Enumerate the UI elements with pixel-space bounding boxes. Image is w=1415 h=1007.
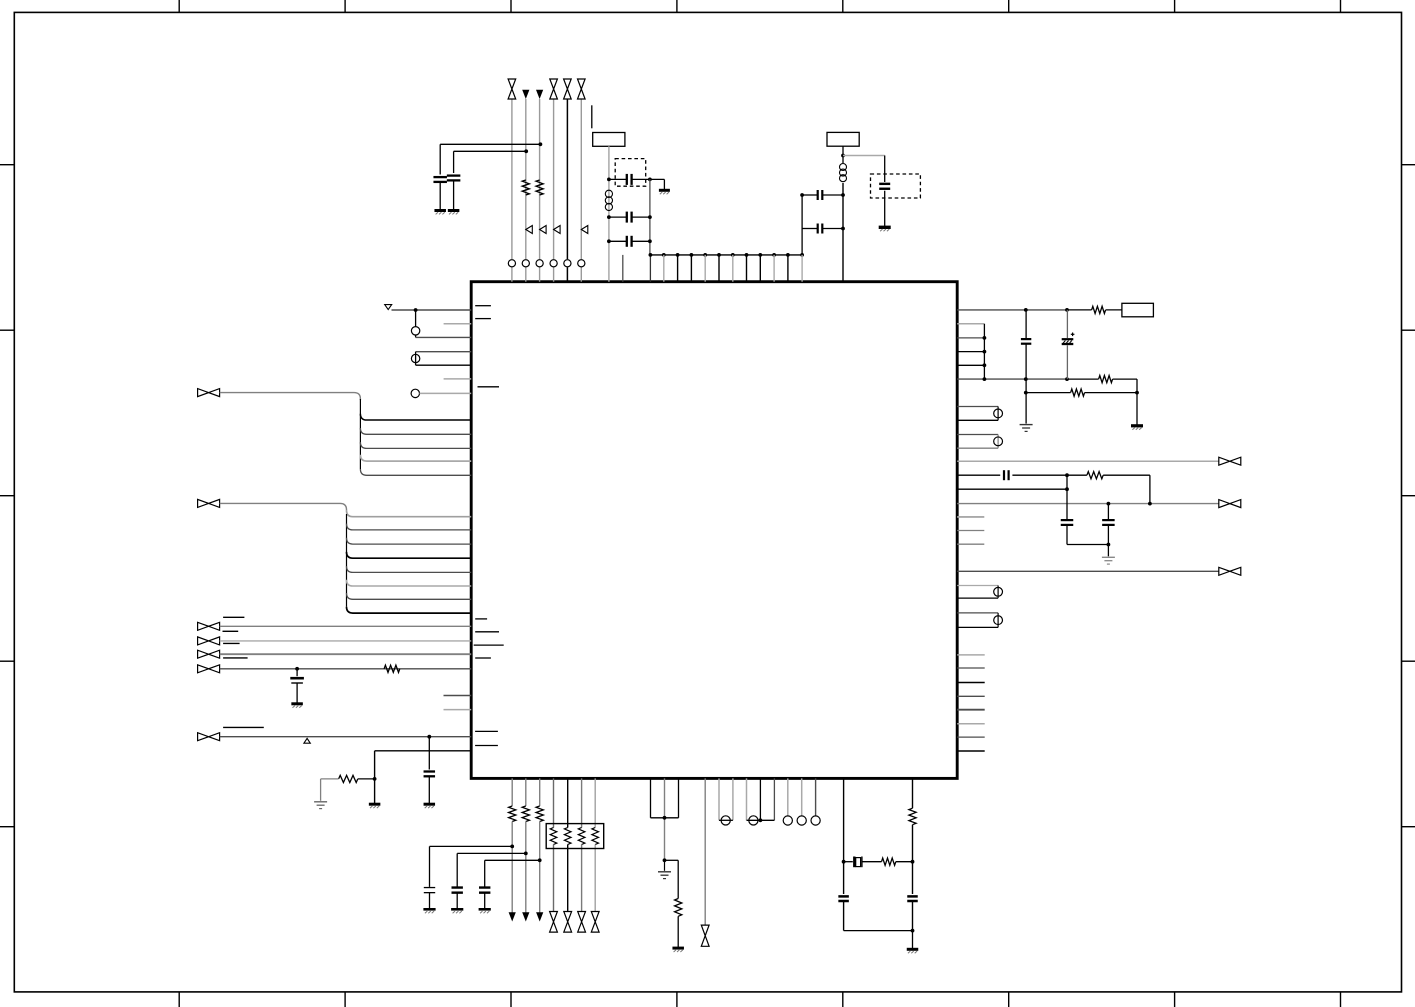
wire J4 <box>220 640 472 642</box>
capacitor C13 <box>1004 470 1009 480</box>
wire rnet 2 lower <box>567 845 569 912</box>
pin stub R 4 <box>957 695 985 697</box>
connector J5 (bowtie) <box>198 650 220 658</box>
capacitor C3 (in Y1) <box>627 174 632 185</box>
node vssgrp a <box>663 816 667 820</box>
node bus 2 <box>676 253 680 257</box>
wire C9 stem <box>296 669 298 676</box>
power arrow A4 <box>522 912 529 921</box>
wire C11 upper <box>1025 310 1027 339</box>
wire C8 leads <box>802 228 843 230</box>
signal overbar S4 <box>223 657 248 659</box>
wire bot con <box>704 778 706 924</box>
node vdd a <box>1024 308 1028 312</box>
capacitor C6 (in Y2) <box>879 184 890 189</box>
inductor L2 <box>840 164 847 182</box>
pin stub L c <box>444 695 472 697</box>
pin stub R grp1c <box>957 351 984 353</box>
wire C15 upper <box>1107 504 1109 520</box>
wire top pin 4 <box>553 99 555 282</box>
wire reset lower <box>416 335 472 337</box>
node tap a <box>1024 391 1028 395</box>
wire top pin 2 <box>525 99 527 282</box>
wire bundle1 line 2 <box>360 428 471 434</box>
wire cap C1 top <box>440 144 540 174</box>
wire circle pin <box>420 392 472 394</box>
node rt <box>911 929 915 933</box>
node avss <box>373 777 377 781</box>
node cap C1 tap <box>539 142 543 146</box>
node J7 tap <box>427 735 431 739</box>
wire bus stub 9 <box>773 255 775 282</box>
wire botc1 b <box>732 778 734 820</box>
pin stub R 7 <box>957 736 985 738</box>
capacitor C17 <box>452 888 463 893</box>
capacitor C2 <box>447 176 461 181</box>
pin stub R 6 <box>957 723 985 725</box>
connector J4 (bowtie) <box>198 637 220 645</box>
ground R4 (earth) <box>314 802 327 809</box>
wire RS3 bottom <box>957 597 998 599</box>
capacitor C16 <box>424 888 435 893</box>
stub top pin <box>622 255 624 282</box>
ground C1 <box>434 211 446 215</box>
wire rnet 1 upper <box>553 778 555 827</box>
wire osc2 left rail <box>801 195 803 282</box>
resistor R11 <box>536 806 543 822</box>
wire bot pull 3 lower <box>539 822 541 913</box>
U1 pin-name overbar 7 <box>475 657 491 659</box>
connector P7 (bowtie) <box>578 912 586 933</box>
wire C12 leads <box>1066 310 1068 379</box>
wire out1 <box>957 460 1218 462</box>
wire botc2 b <box>759 778 761 820</box>
node vdd2 j <box>983 377 987 381</box>
wire vssgrp branch <box>665 860 679 898</box>
node cap C2 tap <box>524 149 528 153</box>
ground R6 bar <box>1131 426 1143 430</box>
node out2 b <box>1148 502 1152 506</box>
wire bundle2 line 3 <box>347 538 472 544</box>
component box B1 <box>593 133 625 147</box>
wire bot pull 3 upper <box>539 778 541 806</box>
node ad b <box>1065 487 1069 491</box>
resistor R4 <box>339 775 358 782</box>
capacitor C10 <box>424 772 436 777</box>
wire C5 leads <box>609 240 650 242</box>
resistor R2 <box>536 180 543 195</box>
wire RS1 top <box>957 406 998 408</box>
wire bundle2 trunk <box>346 514 348 607</box>
wire bus stub 4 <box>704 255 706 282</box>
wire bundle2 line 5 <box>347 566 472 572</box>
signal overbar S2 <box>223 630 239 632</box>
wire vdd2 <box>957 378 1067 380</box>
wire C10 stem <box>428 737 430 770</box>
node bot tap 1 <box>510 845 514 849</box>
node bus end <box>800 253 804 257</box>
wire RS1 join <box>997 407 999 421</box>
wire RS4 bottom <box>957 626 998 628</box>
component box B3 <box>1122 303 1154 317</box>
wire osc2 cross <box>843 155 885 157</box>
wire bus stub 2 <box>677 255 679 282</box>
connector P1 (bowtie) <box>508 79 516 99</box>
wire bundle1 line 3 <box>360 442 471 448</box>
resistor R14 <box>909 808 916 825</box>
pin circle RS3 <box>994 587 1003 596</box>
wire bot pull 2 upper <box>525 778 527 806</box>
wire top pin 6 <box>580 99 582 282</box>
pin stub L b <box>444 378 472 380</box>
connector J8 (bowtie) <box>1219 457 1241 465</box>
wire C15 lower <box>1107 525 1109 556</box>
node C5 a <box>607 239 611 243</box>
wire bundle2 line 4 <box>347 552 472 558</box>
power arrow A2 <box>536 90 543 99</box>
wire rt upper <box>912 778 914 808</box>
wire bus stub 5 <box>718 255 720 282</box>
node bus 5 <box>717 253 721 257</box>
crystal Y1 dashed outline <box>615 159 646 187</box>
node bus 1 <box>662 253 666 257</box>
node vssgrp b <box>663 858 667 862</box>
pin circle RS1 <box>994 409 1003 418</box>
connector J9 (bowtie) <box>1219 500 1241 508</box>
power arrow A5 <box>536 912 543 921</box>
wire bundle2 line 6 <box>347 580 472 586</box>
wire R5 leads <box>1067 309 1122 311</box>
wire osc2 mid <box>842 183 844 282</box>
wire bus stub 6 <box>732 255 734 282</box>
resistor R1 <box>522 180 529 195</box>
pin circle top 5 <box>564 260 571 267</box>
ground Y2 <box>879 227 891 231</box>
capacitor C4 <box>627 212 632 223</box>
connector P8 (bowtie) <box>591 912 599 933</box>
ground C17 <box>451 909 463 913</box>
node vdd2 a <box>1024 377 1028 381</box>
wire Y3 lead b <box>862 861 882 863</box>
wire C14 lower <box>1067 525 1108 545</box>
signal overbar S3 <box>223 642 240 644</box>
wire botc2 join <box>747 819 775 821</box>
node osc1 b <box>648 178 652 182</box>
wire bus stub 10 <box>787 255 789 282</box>
wire rnet 4 lower <box>594 845 596 912</box>
pin circle RS2 <box>994 437 1003 446</box>
U1 pin-name overbar 3 <box>478 386 500 388</box>
pin stub R grp1a <box>957 323 984 325</box>
wire vdd main <box>957 309 1067 311</box>
ground C11 (earth) <box>1020 425 1033 432</box>
U1 pin-name overbar 5 <box>475 631 499 633</box>
capacitor C18 <box>479 888 490 893</box>
wire rt lower <box>912 901 914 930</box>
wire R12 lower <box>677 916 679 947</box>
pin circle botc2 <box>749 816 758 825</box>
capacitor C14 <box>1061 520 1074 525</box>
capacitor C8 <box>818 224 823 234</box>
power arrow A3 <box>509 912 516 921</box>
ground R12 <box>672 948 684 952</box>
inductor L1 <box>605 190 612 210</box>
power arrow A1 <box>522 90 529 99</box>
node ad a <box>1065 473 1069 477</box>
pin circle L3 <box>411 389 419 397</box>
wire R4 left <box>321 779 339 801</box>
node grp1 a <box>983 336 987 340</box>
wire lt lower <box>844 901 913 930</box>
wire lower tap <box>1026 392 1071 394</box>
frame zone ticks left and right <box>0 165 1415 827</box>
wire C4 leads <box>609 216 650 218</box>
ground vssgrp (earth) <box>658 872 671 879</box>
wire RS2 top <box>957 434 998 436</box>
resistor R3 <box>384 665 400 672</box>
wire top pin 1 <box>511 99 513 282</box>
wire bundle1 line 4 <box>360 455 471 461</box>
bus wire <box>650 254 802 256</box>
wire RS2 bottom <box>957 447 998 449</box>
wire adline3 <box>957 488 1067 490</box>
wire RS3 top <box>957 585 998 587</box>
signal overbar S1 <box>223 616 244 618</box>
node osc1 a <box>607 178 611 182</box>
wire R8 leads <box>1067 475 1150 503</box>
connector P5 (bowtie) <box>550 912 558 933</box>
wire bundle1 line 1 <box>360 414 471 420</box>
wire grp1 join <box>983 324 985 379</box>
node bus 6 <box>731 253 735 257</box>
pin stub L d <box>444 709 472 711</box>
wire botc2 a <box>746 778 748 820</box>
connector J2 (bowtie) <box>198 499 220 507</box>
wire Y2 lower <box>884 191 886 226</box>
wire bundle2 line 1 <box>347 510 472 516</box>
wire rnet 4 upper <box>594 778 596 827</box>
capacitor C15 <box>1102 520 1115 525</box>
ground C10 <box>424 804 436 808</box>
wire Y3 lead a <box>844 861 853 863</box>
capacitor C12 (electrolytic) <box>1062 333 1075 345</box>
wire xpin bottom <box>416 364 472 366</box>
connector P4 (bowtie) <box>578 79 586 99</box>
pin stub R 8 <box>957 750 985 752</box>
pin circle botnc3 <box>811 816 820 825</box>
pin circle top 1 <box>508 260 515 267</box>
net marker nabla <box>385 305 392 310</box>
wire R7 right <box>1085 392 1137 394</box>
node Y3 b <box>911 860 915 864</box>
signal overbar S5 <box>223 726 264 728</box>
wire botnc 3 <box>815 778 817 816</box>
wire C7 leads <box>802 194 843 196</box>
wire bundle2 line 7 <box>347 593 472 599</box>
wire bus stub 7 <box>746 255 748 282</box>
capacitor C1 <box>433 177 447 182</box>
wire botnc 1 <box>787 778 789 816</box>
wire osc1 left <box>608 146 610 281</box>
wire cap C2 top <box>454 151 527 173</box>
connector J7 (bowtie) <box>198 733 220 741</box>
U1 pin-name overbar 6 <box>474 644 504 646</box>
wire vssgrp mid <box>664 778 666 860</box>
resistor R13 <box>882 858 896 865</box>
pin circle botnc2 <box>797 816 806 825</box>
node J6 tap <box>295 667 299 671</box>
node reset <box>414 308 418 312</box>
pin circle botc1 <box>721 816 730 825</box>
stub segment <box>591 105 593 128</box>
wire C18 lower <box>484 893 486 909</box>
pin stub R grp2c <box>957 543 984 545</box>
wire C2 lower <box>453 180 455 209</box>
wire osc2 down <box>842 146 844 163</box>
connector P9 (bowtie) <box>701 925 709 946</box>
pin stub R 3 <box>957 682 985 684</box>
wire Y3 left upper <box>843 778 845 861</box>
pin stub R grp1d <box>957 364 984 366</box>
wire J7 <box>220 736 472 738</box>
connector J6 (bowtie) <box>198 665 220 673</box>
wire RS1 bottom <box>957 419 998 421</box>
crystal Y3 <box>854 857 862 868</box>
pin circle RS4 <box>994 616 1003 625</box>
wire rt mid <box>912 825 914 894</box>
node bus 8 <box>758 253 762 257</box>
wire RS4 top <box>957 612 998 614</box>
node bus start <box>649 253 653 257</box>
wire C10 lower <box>428 776 430 803</box>
node Y3 a <box>842 860 846 864</box>
node botc2 <box>759 818 763 822</box>
node C8 b <box>841 227 845 231</box>
wire vssgrp stem <box>664 860 666 871</box>
wire top pin 3 <box>539 99 541 282</box>
wire adline <box>957 474 1000 476</box>
capacitor C5 <box>627 236 632 247</box>
node vdd2 b <box>1065 377 1069 381</box>
pin circle botnc1 <box>783 816 792 825</box>
pin stub R 2 <box>957 667 985 669</box>
node bus 4 <box>703 253 707 257</box>
node C15 <box>1107 543 1111 547</box>
wire rnet 2 upper <box>567 778 569 827</box>
ground C15 (earth) <box>1102 557 1115 564</box>
wire bot tap 2 <box>457 853 526 887</box>
node C7 a <box>800 193 804 197</box>
wire lt mid <box>843 862 845 894</box>
wire reset top <box>392 309 472 311</box>
wire bundle2 line 8 <box>347 607 472 613</box>
wire R13 right <box>896 861 913 863</box>
wire C17 lower <box>456 893 458 909</box>
wire R4 right <box>358 778 375 780</box>
wire bus stub 3 <box>690 255 692 282</box>
wire J5 <box>220 653 472 655</box>
pin stub R 1 <box>957 654 985 656</box>
connector J3 (bowtie) <box>198 622 220 630</box>
wire xpin top <box>416 351 472 353</box>
capacitor C11 <box>1021 339 1031 344</box>
node bus 10 <box>786 253 790 257</box>
resistor R10 <box>522 806 529 822</box>
resistor R8 <box>1087 472 1103 479</box>
ground C2 <box>448 211 460 215</box>
IC U1 <box>471 282 957 779</box>
wire bot pull 2 lower <box>525 822 527 913</box>
wire J1 <box>220 393 361 400</box>
U1 pin-name overbar 1 <box>475 305 491 307</box>
wire top pin 5 <box>566 99 568 282</box>
resistor R5 <box>1092 306 1106 313</box>
wire rnet 3 upper <box>581 778 583 827</box>
pin circle top 3 <box>536 260 543 267</box>
input marker T4 <box>581 226 588 234</box>
pin circle top 4 <box>550 260 557 267</box>
wire J2 <box>220 503 347 510</box>
node C4 a <box>607 215 611 219</box>
input marker T3 <box>554 226 561 234</box>
crystal Y2 dashed outline <box>871 174 921 198</box>
wire botc2 c <box>773 778 775 820</box>
wire J3 <box>220 625 472 627</box>
node vdd b <box>1065 308 1069 312</box>
wire RS3 join <box>997 586 999 599</box>
input marker T2 <box>540 226 547 234</box>
wire botc1 join <box>719 819 733 821</box>
node bus 9 <box>772 253 776 257</box>
wire rnet 3 lower <box>581 845 583 912</box>
wire out2 <box>957 503 1218 505</box>
wire vssgrp right <box>678 778 680 817</box>
input marker T1 <box>526 226 533 234</box>
wire C16 lower <box>429 893 431 909</box>
pin circle top 6 <box>578 260 585 267</box>
resistor R12 <box>675 899 682 917</box>
node osc2 top <box>841 154 845 158</box>
wire botc1 a <box>718 778 720 820</box>
resistor network box <box>546 824 604 849</box>
connector P3 (bowtie) <box>564 79 572 99</box>
resistor RN1-3 <box>578 828 585 845</box>
wire osc1 gnd stem <box>663 179 665 189</box>
ground rt <box>907 949 919 953</box>
pin circle top 2 <box>522 260 529 267</box>
ground C18 <box>479 909 491 913</box>
wire botnc 2 <box>801 778 803 816</box>
wire C11 lower <box>1025 344 1027 424</box>
wire R6 leads <box>1067 379 1137 425</box>
node bot tap 3 <box>538 858 542 862</box>
capacitor C19 <box>907 896 918 901</box>
ground C9 <box>291 704 303 708</box>
node bot tap 2 <box>524 852 528 856</box>
wire bundle1 line 5 <box>360 469 471 475</box>
wire C1 lower <box>439 182 441 210</box>
wire Y2 lead <box>884 156 886 183</box>
ground C16 <box>423 909 435 913</box>
U1 pin-name overbar 4 <box>475 618 487 620</box>
ground avss <box>369 804 381 808</box>
pin stub L a <box>444 323 472 325</box>
node C5 b <box>648 239 652 243</box>
wire reset drop <box>415 310 417 327</box>
connector J10 (bowtie) <box>1219 567 1241 575</box>
pin circle L2 <box>411 354 419 362</box>
pin stub R grp2a <box>957 516 984 518</box>
